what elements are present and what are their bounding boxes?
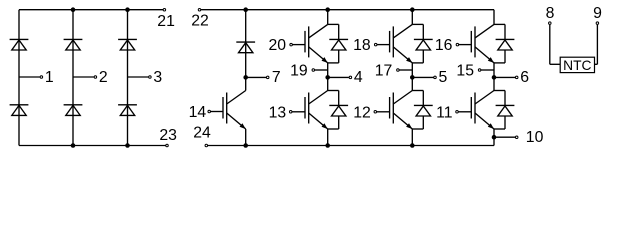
- node phase output W: [492, 75, 497, 80]
- svg-text:22: 22: [191, 12, 209, 29]
- svg-text:13: 13: [269, 104, 287, 121]
- wire leg W top diode branch: [494, 24, 505, 63]
- wire leg U top collector drop: [327, 10, 329, 25]
- diode D7 (brake diode): [236, 42, 255, 53]
- svg-text:14: 14: [189, 104, 207, 121]
- node leg V emitter on bottom rail: [410, 143, 415, 148]
- thermistor NTC R1: [560, 57, 594, 73]
- svg-text:6: 6: [520, 69, 529, 86]
- diode D5 (rectifier top, leg 3): [118, 39, 137, 50]
- node rectifier top rail junction leg 3: [125, 7, 130, 12]
- terminal pin 7: [266, 69, 280, 86]
- node inverter leg V top rail junction: [410, 7, 415, 12]
- wire rectifier top rail (DC+ to pin 21): [19, 9, 163, 11]
- label pin 13: [269, 104, 287, 121]
- node pin 10 tap: [492, 135, 497, 140]
- wire rectifier leg 1: [18, 10, 20, 146]
- wire leg V top diode branch: [412, 24, 423, 63]
- wire leg U bottom collector drop: [327, 77, 329, 90]
- wire brake resistor stub pin 7: [246, 76, 267, 78]
- wire aux emitter stub pin 17: [399, 69, 412, 71]
- svg-text:4: 4: [354, 69, 363, 86]
- transistor T7 (brake chopper IGBT), gate pin 14: [208, 91, 246, 130]
- wire chopper emitter to bottom rail: [245, 129, 247, 146]
- wire leg V top collector drop: [411, 10, 413, 25]
- svg-text:11: 11: [436, 104, 453, 121]
- node leg U emitter on bottom rail: [325, 143, 330, 148]
- terminal pin 23: [159, 127, 177, 147]
- terminal pin 19: [290, 63, 314, 80]
- transistor T5 (bottom IGBT leg V), gate pin 12: [374, 91, 412, 130]
- label pin 12: [353, 104, 371, 121]
- wire rectifier leg 2: [72, 10, 74, 146]
- diode D2 (rectifier bottom, leg 1): [10, 105, 29, 116]
- label pin 18: [353, 37, 371, 54]
- svg-text:10: 10: [526, 129, 544, 146]
- node rectifier bottom rail junction leg 2: [71, 143, 76, 148]
- wire inverter bottom rail (pin 24 to phase W leg): [208, 145, 494, 147]
- terminal pin 24: [193, 124, 211, 146]
- terminal pin 3: [149, 69, 163, 86]
- svg-text:21: 21: [157, 13, 175, 30]
- wire leg U bottom emitter to rail: [327, 129, 329, 146]
- node rectifier bottom rail junction leg 3: [125, 143, 130, 148]
- wire phase output stub pin 6: [494, 76, 515, 78]
- diode D13 (top freewheel diode leg W): [496, 39, 515, 50]
- wire phase output stub pin 4: [328, 76, 349, 78]
- svg-text:19: 19: [290, 63, 308, 80]
- svg-text:7: 7: [272, 69, 281, 86]
- svg-text:NTC: NTC: [563, 58, 591, 73]
- label pin 14: [189, 104, 207, 121]
- node chopper top rail junction: [243, 7, 248, 12]
- node rectifier top rail junction leg 2: [71, 7, 76, 12]
- diode D12 (top freewheel diode leg V): [414, 39, 433, 50]
- svg-text:23: 23: [159, 127, 177, 144]
- svg-text:8: 8: [546, 5, 555, 22]
- wire AC input stub pin 1: [19, 76, 40, 78]
- wire leg U top diode branch: [328, 24, 339, 63]
- svg-text:17: 17: [375, 63, 393, 80]
- wire leg W top emitter to phase node: [493, 63, 495, 78]
- terminal pin 21: [157, 8, 175, 29]
- wire rectifier leg 3: [127, 10, 129, 146]
- wire DC- stub pin 10: [494, 136, 515, 138]
- node phase output V: [410, 75, 415, 80]
- wire NTC left lead: [550, 25, 560, 65]
- terminal pin 22: [191, 8, 209, 29]
- wire phase output stub pin 5: [412, 76, 433, 78]
- svg-text:18: 18: [353, 37, 371, 54]
- transistor T3 (top IGBT leg W), gate pin 16: [456, 24, 494, 63]
- svg-text:16: 16: [435, 37, 453, 54]
- terminal pin 17: [375, 63, 399, 80]
- terminal pin 2: [94, 69, 108, 86]
- wire leg W bottom collector drop: [493, 77, 495, 90]
- wire NTC right lead: [595, 25, 598, 65]
- terminal pin 15: [456, 63, 480, 80]
- wire leg V top emitter to phase node: [411, 63, 413, 78]
- terminal pin 6: [515, 69, 529, 86]
- wire leg W bottom emitter to rail with pin 10 tap: [493, 129, 495, 146]
- svg-text:5: 5: [439, 69, 448, 86]
- terminal pin 5: [434, 69, 448, 86]
- diode D6 (rectifier bottom, leg 3): [118, 105, 137, 116]
- svg-text:12: 12: [353, 104, 371, 121]
- wire chopper branch upper: [245, 10, 247, 78]
- wire leg U bottom diode branch: [328, 91, 339, 130]
- node chopper midpoint (pin 7 node): [243, 75, 248, 80]
- wire leg W top collector drop: [493, 10, 495, 25]
- wire aux emitter stub pin 15: [481, 69, 494, 71]
- transistor T1 (top IGBT leg U), gate pin 20: [290, 24, 328, 63]
- wire chopper collector lead: [245, 77, 247, 90]
- label pin 16: [435, 37, 453, 54]
- diode D16 (bottom freewheel diode leg W): [496, 105, 515, 116]
- wire AC input stub pin 3: [128, 76, 149, 78]
- svg-text:3: 3: [153, 69, 162, 86]
- diode D1 (rectifier top, leg 1): [10, 39, 29, 50]
- terminal pin 1: [40, 69, 54, 86]
- wire leg V bottom emitter to rail: [411, 129, 413, 146]
- wire AC input stub pin 2: [73, 76, 94, 78]
- label pin 20: [269, 37, 287, 54]
- node phase output U: [325, 75, 330, 80]
- wire leg U top emitter to phase node: [327, 63, 329, 78]
- wire aux emitter stub pin 19: [315, 69, 328, 71]
- svg-text:15: 15: [456, 63, 474, 80]
- svg-text:9: 9: [593, 5, 602, 22]
- wire rectifier bottom rail (DC- to pin 23): [19, 145, 166, 147]
- wire inverter top rail (pin 22 to phase W leg): [201, 9, 494, 11]
- wire leg V bottom collector drop: [411, 77, 413, 90]
- terminal pin 10: [515, 129, 543, 146]
- diode D14 (bottom freewheel diode leg U): [329, 105, 348, 116]
- svg-text:20: 20: [269, 37, 287, 54]
- svg-text:2: 2: [99, 69, 108, 86]
- diode D15 (bottom freewheel diode leg V): [414, 105, 433, 116]
- terminal pin 9: [593, 5, 602, 24]
- transistor T2 (top IGBT leg V), gate pin 18: [374, 24, 412, 63]
- diode D4 (rectifier bottom, leg 2): [64, 105, 83, 116]
- diode D3 (rectifier top, leg 2): [64, 39, 83, 50]
- node chopper emitter on bottom rail: [243, 143, 248, 148]
- node inverter leg U top rail junction: [325, 7, 330, 12]
- diode D11 (top freewheel diode leg U): [329, 39, 348, 50]
- transistor T6 (bottom IGBT leg W), gate pin 11: [456, 91, 494, 130]
- wire leg V bottom diode branch: [412, 91, 423, 130]
- svg-text:1: 1: [45, 69, 54, 86]
- wire leg W bottom diode branch: [494, 91, 505, 130]
- transistor T4 (bottom IGBT leg U), gate pin 13: [289, 91, 327, 130]
- terminal pin 4: [349, 69, 363, 86]
- terminal pin 8: [546, 5, 555, 24]
- label pin 11: [436, 104, 453, 121]
- svg-text:24: 24: [193, 124, 211, 141]
